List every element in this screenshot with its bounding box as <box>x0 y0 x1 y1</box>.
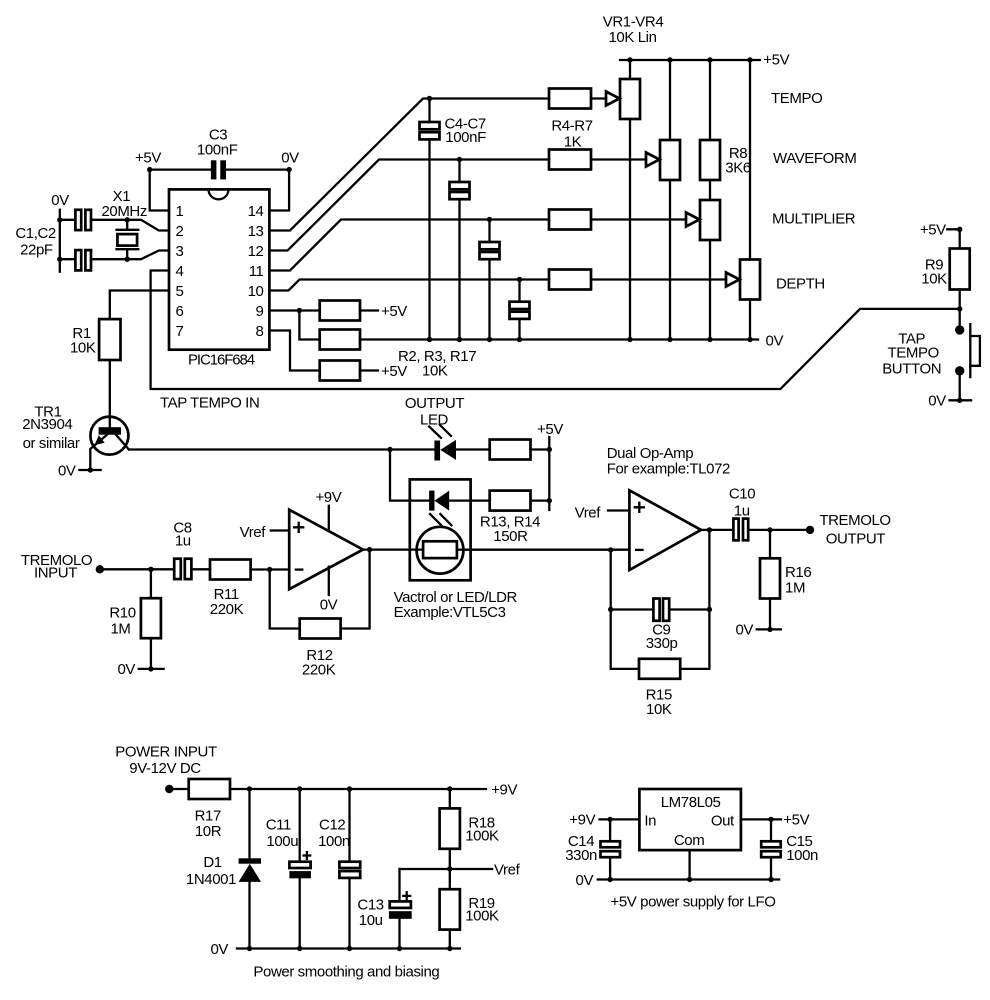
label 100nF (C4-C7) <box>445 129 486 146</box>
label INPUT <box>34 565 77 582</box>
label or similar <box>23 435 80 452</box>
svg-text:LED: LED <box>420 411 449 428</box>
svg-text:14: 14 <box>248 203 264 220</box>
wire R19 top lead <box>449 869 451 889</box>
LED D3 (vactrol LED) <box>429 491 449 511</box>
svg-text:0V: 0V <box>281 150 299 167</box>
wire VR4 bottom to 0V rail <box>749 300 751 340</box>
svg-text:+5V: +5V <box>381 363 407 380</box>
wire VR4 top lead <box>749 60 751 260</box>
node Vref junction <box>447 866 452 871</box>
svg-text:10R: 10R <box>195 823 222 840</box>
node inverting input A <box>267 567 272 572</box>
minus symbol B <box>636 549 642 551</box>
svg-text:20MHz: 20MHz <box>101 203 147 220</box>
caption Power smoothing and biasing <box>253 964 439 981</box>
svg-text:0V: 0V <box>210 941 228 958</box>
label R19 <box>468 895 494 912</box>
svg-text:Vref: Vref <box>240 524 267 541</box>
node C9 right <box>707 607 712 612</box>
plus symbol A <box>294 523 303 532</box>
svg-text:22pF: 22pF <box>20 242 53 259</box>
label Vactrol or LED/LDR <box>394 589 518 606</box>
label Vref (A) <box>240 524 267 541</box>
LED D2 emission lines <box>429 425 451 438</box>
node C6 tap <box>487 217 492 222</box>
svg-text:C11: C11 <box>266 817 291 834</box>
label 10K (R15) <box>646 701 672 718</box>
pin 5 number <box>176 283 184 300</box>
wire pin 10 to depth bus <box>269 280 549 291</box>
node pin 9 junction <box>297 308 302 313</box>
svg-text:12: 12 <box>248 243 264 260</box>
wire C14 bottom lead <box>609 857 611 879</box>
svg-text:R4-R7: R4-R7 <box>551 118 592 135</box>
wire C2 to crystal node and pin 3 <box>92 251 169 260</box>
node C14 top <box>607 817 612 822</box>
capacitor C2 <box>75 250 91 270</box>
transistor TR1 emitter <box>90 435 107 470</box>
capacitor C6 <box>480 242 500 259</box>
op-amp U2a triangle <box>289 510 363 590</box>
label TAP <box>898 331 925 348</box>
svg-text:R10: R10 <box>109 605 135 622</box>
wire C15 top lead <box>770 819 772 841</box>
wire input to R17p <box>169 788 188 790</box>
svg-text:13: 13 <box>248 223 264 240</box>
wire VR2 bottom to 0V rail <box>669 180 671 340</box>
wire C15 bottom lead <box>770 857 772 879</box>
svg-text:DEPTH: DEPTH <box>776 276 825 293</box>
label TREMOLO (input) <box>21 552 92 569</box>
svg-text:+9V: +9V <box>569 812 595 829</box>
wire R1 to TR1 base <box>109 360 111 427</box>
switch contact bottom <box>955 366 964 375</box>
node D1 bottom <box>247 946 252 951</box>
wire C4 lower lead to 0V rail <box>428 139 430 339</box>
label 0V (R16) <box>735 622 753 639</box>
resistor R4 <box>549 89 591 109</box>
wire C13 bottom lead <box>398 919 400 949</box>
svg-text:POWER INPUT: POWER INPUT <box>115 744 217 761</box>
label +9V (rail) <box>491 781 517 798</box>
pin 2 number <box>176 223 184 240</box>
label 100K (R18) <box>465 827 499 844</box>
wire R9 to button junction <box>959 290 961 326</box>
label 100n (C15) <box>786 847 818 864</box>
label 100K (R19) <box>465 907 499 924</box>
node output A / R12 <box>367 547 372 552</box>
wire pin 13 to tempo bus <box>269 99 549 231</box>
input terminal <box>96 565 104 573</box>
wire +5V rail to C3 left plate <box>150 168 211 170</box>
wire R18 to Vref <box>449 849 451 869</box>
label 0V (crystal caps) <box>51 192 69 209</box>
node 0V button <box>957 398 962 403</box>
label C11 <box>266 817 291 834</box>
wire pin 9 stub <box>269 309 319 311</box>
wire +5V tick to R9 <box>947 229 959 248</box>
node R13/+5V <box>547 447 552 452</box>
wire C6 lower lead to 0V rail <box>488 259 490 339</box>
wire pin 11 to multiplier bus <box>269 220 549 271</box>
svg-text:LM78L05: LM78L05 <box>661 794 721 811</box>
resistor R8 <box>700 140 720 180</box>
svg-text:330n: 330n <box>565 847 597 864</box>
pin 4 number <box>176 263 184 280</box>
svg-text:100K: 100K <box>465 827 499 844</box>
switch contact top <box>955 325 964 334</box>
label Example:VTL5C3 <box>394 604 506 621</box>
svg-text:0V: 0V <box>576 872 594 889</box>
wire R12 to output A <box>341 550 370 629</box>
svg-text:1N4001: 1N4001 <box>186 871 236 888</box>
label 1K <box>564 134 582 151</box>
node C11 bottom <box>297 946 302 951</box>
wire input to C8 <box>100 568 174 570</box>
label Com <box>674 832 704 849</box>
wire LED to R13 <box>456 448 490 450</box>
wire R18 top lead <box>449 789 451 808</box>
wire opamp B output to C10 <box>701 529 733 531</box>
node R16 tap <box>767 527 772 532</box>
wire Out to +5V <box>741 818 781 820</box>
node inverting input B <box>608 547 613 552</box>
label 1M (R10) <box>110 620 130 637</box>
svg-text:TEMPO: TEMPO <box>888 345 939 362</box>
wire R8 top lead <box>709 60 711 140</box>
svg-text:100u: 100u <box>266 833 298 850</box>
node C1/0V <box>57 217 62 222</box>
pin 3 number <box>176 243 184 260</box>
wire C4 upper lead <box>428 99 430 123</box>
switch actuator body <box>970 336 980 366</box>
pin 12 number <box>248 243 264 260</box>
node Com bottom <box>687 877 692 882</box>
wire Com to 0V <box>688 850 690 879</box>
svg-text:TEMPO: TEMPO <box>771 90 822 107</box>
svg-text:100K: 100K <box>465 907 499 924</box>
svg-text:TAP TEMPO IN: TAP TEMPO IN <box>160 395 259 412</box>
label 1u (C8) <box>175 533 191 550</box>
capacitor C4 <box>420 122 440 139</box>
wire C6 upper lead <box>488 220 490 243</box>
label +5V (pin1 supply) <box>135 150 161 167</box>
resistor R10 <box>141 598 161 638</box>
label R15 <box>646 687 672 704</box>
label C1,C2 <box>15 225 56 242</box>
transistor TR1 circle <box>90 417 128 455</box>
node LED branch <box>387 447 392 452</box>
label R12 <box>306 647 332 664</box>
resistor R16 <box>760 558 780 598</box>
label D1 <box>203 854 221 871</box>
label POWER INPUT <box>115 744 217 761</box>
capacitor C3 <box>211 160 226 179</box>
capacitor C15 <box>761 841 781 857</box>
resistor R7 <box>549 270 591 290</box>
caption +5V power supply for LFO <box>610 894 775 911</box>
wire +9V pin A <box>328 506 330 531</box>
label TR1 <box>34 403 61 420</box>
wire R8 to VR3 <box>709 180 711 200</box>
node C12 top <box>347 786 352 791</box>
wire VR2 top lead <box>669 60 671 140</box>
svg-text:Power smoothing and biasing: Power smoothing and biasing <box>253 964 439 981</box>
node crystal bottom <box>125 257 130 262</box>
output terminal <box>806 526 814 534</box>
label 220K (R11) <box>210 601 244 618</box>
node C7 tap <box>517 277 522 282</box>
potentiometer VR2 <box>660 140 680 180</box>
node VR2 top <box>667 57 672 62</box>
label +5V (pot rail) <box>763 51 789 68</box>
resistor R19 <box>440 889 460 929</box>
label 0V (regulator) <box>576 872 594 889</box>
node VR1 top <box>627 57 632 62</box>
label C10 <box>729 486 755 503</box>
node R8 top <box>707 57 712 62</box>
svg-text:+5V: +5V <box>920 222 946 239</box>
label +9V (opamp A) <box>315 489 341 506</box>
resistor R9 <box>950 249 970 290</box>
node VR4 top <box>747 57 752 62</box>
wire D1 bottom lead <box>248 882 250 949</box>
wire 0V pin A <box>328 567 330 595</box>
label R10 <box>109 605 135 622</box>
capacitor C7 <box>510 302 530 319</box>
wire +5V vertical (LED/R14) <box>548 437 550 510</box>
label PIC16F684 <box>188 352 255 369</box>
svg-text:3K6: 3K6 <box>725 159 751 176</box>
svg-text:TREMOLO: TREMOLO <box>819 512 890 529</box>
svg-text:220K: 220K <box>210 601 244 618</box>
svg-text:+5V: +5V <box>763 51 789 68</box>
label C8 <box>173 519 191 536</box>
svg-text:BUTTON: BUTTON <box>882 361 941 378</box>
node D1 top <box>247 786 252 791</box>
wire 0V regulator rail <box>598 878 779 880</box>
wire R14 to +5V <box>531 499 550 501</box>
capacitor C5 <box>450 182 470 199</box>
node R19 bottom <box>447 946 452 951</box>
wire C11 bottom lead <box>299 878 301 948</box>
wire inverting A down to R12 <box>270 570 300 629</box>
label 100u <box>266 833 298 850</box>
plus symbol C11 <box>304 852 311 859</box>
IC U1 PIC16F684 body <box>169 189 269 349</box>
node C5 bottom <box>457 337 462 342</box>
regulator U3 LM78L05 box <box>639 789 741 850</box>
svg-text:R17: R17 <box>195 807 221 824</box>
wire Vref to + input A <box>271 529 289 531</box>
wire 0V pot rail <box>360 338 758 340</box>
wiper arrow VR4 <box>726 273 740 287</box>
node crystal top <box>125 217 130 222</box>
wire Vref to + input B <box>608 509 629 511</box>
label 1N4001 <box>186 871 236 888</box>
svg-text:10K: 10K <box>921 271 947 288</box>
label 10K Lin <box>608 29 656 46</box>
label C12 <box>319 817 345 834</box>
svg-text:+5V: +5V <box>381 303 407 320</box>
wire R19 bottom lead <box>449 930 451 949</box>
label R2, R3, R17 <box>398 348 476 365</box>
wire pin 9 junction down to R3 <box>299 311 319 340</box>
node C9 left <box>608 607 613 612</box>
node tap wire junction <box>957 306 962 311</box>
label VR1-VR4 <box>603 14 664 31</box>
pin 1 number <box>176 203 184 220</box>
label R11 <box>214 586 239 603</box>
svg-text:For example:TL072: For example:TL072 <box>607 460 730 477</box>
wire C12 bottom lead <box>348 878 350 949</box>
svg-text:or similar: or similar <box>23 435 80 452</box>
wire R16 top lead <box>769 530 771 558</box>
LED D2 (output LED) <box>434 440 456 461</box>
pin 6 number <box>176 303 184 320</box>
svg-text:0V: 0V <box>51 192 69 209</box>
label +5V (pin 8) <box>381 363 407 380</box>
svg-text:C1,C2: C1,C2 <box>15 225 56 242</box>
pin 14 number <box>248 203 264 220</box>
0V tick (R16) <box>757 628 781 630</box>
label +5V (LED) <box>537 421 563 438</box>
wire 0V vertical C1/C2 <box>59 210 61 272</box>
label R17 <box>195 807 221 824</box>
pin 9 number <box>256 303 264 320</box>
wire R10 top lead <box>150 569 152 598</box>
wire C14 top lead <box>609 819 611 841</box>
pin 8 number <box>256 323 264 340</box>
svg-text:10K: 10K <box>646 701 672 718</box>
wire +9V to In <box>600 818 640 820</box>
label R18 <box>468 815 494 832</box>
label X1 <box>113 188 131 205</box>
label TEMPO (button) <box>888 345 939 362</box>
svg-text:100nF: 100nF <box>445 129 486 146</box>
wire 0V power rail <box>237 947 460 949</box>
wire +5V down to pin 1 <box>150 170 169 211</box>
label 10K (R9) <box>921 271 947 288</box>
label C3 <box>209 127 227 144</box>
svg-text:D1: D1 <box>203 854 221 871</box>
label Vref (B) <box>575 504 602 521</box>
node C14 bottom <box>607 877 612 882</box>
label TEMPO <box>771 90 822 107</box>
node +5V corner <box>147 167 152 172</box>
svg-text:Dual Op-Amp: Dual Op-Amp <box>607 445 694 462</box>
node VR3 bottom <box>707 337 712 342</box>
label R4-R7 <box>551 118 592 135</box>
svg-text:10K Lin: 10K Lin <box>608 29 656 46</box>
label Out <box>711 812 735 829</box>
label 9V-12V DC <box>129 760 201 777</box>
label BUTTON <box>882 361 941 378</box>
wire opamp A output to LDR <box>363 548 423 550</box>
wire collector to LED <box>129 448 434 450</box>
svg-text:Vref: Vref <box>575 504 602 521</box>
label OUTPUT <box>405 395 465 412</box>
wire C7 lower lead to 0V rail <box>518 319 520 340</box>
wire R17 to +5V <box>360 369 378 371</box>
svg-text:4: 4 <box>176 263 184 280</box>
label 100nF <box>197 142 238 159</box>
wire pin 8 to R17 <box>269 331 319 371</box>
node C15 bottom <box>768 877 773 882</box>
node C5 tap <box>457 157 462 162</box>
resistor R17 (pin 8 pullup) <box>320 361 360 381</box>
plus symbol B <box>635 503 644 512</box>
svg-text:9V-12V DC: 9V-12V DC <box>129 760 201 777</box>
node +5V R9 <box>957 227 962 232</box>
wire R10 to 0V <box>150 638 152 669</box>
label C4-C7 <box>445 115 486 132</box>
svg-text:3: 3 <box>176 243 184 260</box>
label LED <box>420 411 449 428</box>
label C14 <box>568 833 594 850</box>
wire pin 12 to waveform bus <box>269 160 549 251</box>
svg-text:0V: 0V <box>320 596 338 613</box>
wire C1 to crystal node and pin 2 <box>92 220 169 231</box>
pin 7 number <box>176 323 184 340</box>
wiper arrow VR3 <box>686 213 700 227</box>
label In <box>644 812 656 829</box>
node C4 tap <box>427 96 432 101</box>
label 330p <box>646 635 678 652</box>
svg-text:+5V power supply for LFO: +5V power supply for LFO <box>610 894 775 911</box>
label WAVEFORM <box>773 150 856 167</box>
svg-text:1u: 1u <box>734 503 750 520</box>
svg-text:0V: 0V <box>766 332 784 349</box>
wire R16 to 0V <box>769 599 771 630</box>
wire output B down to R15 <box>680 530 709 669</box>
svg-text:10: 10 <box>248 283 264 300</box>
svg-text:5: 5 <box>176 283 184 300</box>
svg-text:Com: Com <box>674 832 704 849</box>
capacitor C9 <box>653 599 669 621</box>
LED D3 emission lines <box>430 514 452 525</box>
wire C8 to R11 <box>191 568 210 570</box>
power input terminal <box>165 785 173 793</box>
potentiometer VR1 <box>620 79 640 119</box>
label 10K (R2,R3,R17) <box>422 363 448 380</box>
op-amp U2b triangle <box>629 490 701 570</box>
wire C11 top lead <box>299 789 301 862</box>
svg-text:INPUT: INPUT <box>34 565 77 582</box>
label OUTPUT (output) <box>826 531 886 548</box>
label 100n (C12) <box>318 833 350 850</box>
minus symbol A <box>296 568 302 570</box>
label TAP TEMPO IN <box>160 395 259 412</box>
diode D1 <box>239 858 261 882</box>
node VR4 bottom <box>747 337 752 342</box>
node R10 tap <box>148 567 153 572</box>
node C12 bottom <box>347 946 352 951</box>
svg-text:OUTPUT: OUTPUT <box>826 531 886 548</box>
svg-text:1M: 1M <box>110 620 130 637</box>
svg-text:11: 11 <box>249 263 264 280</box>
svg-text:1: 1 <box>176 203 184 220</box>
resistor R12 <box>300 619 341 639</box>
wire VR1 top lead <box>629 60 631 79</box>
LDR resistor body <box>423 541 457 558</box>
label R8 <box>729 145 747 162</box>
label +9V (regulator) <box>569 812 595 829</box>
label 220K (R12) <box>302 661 336 678</box>
svg-text:C13: C13 <box>357 896 383 913</box>
svg-text:10K: 10K <box>70 340 96 357</box>
